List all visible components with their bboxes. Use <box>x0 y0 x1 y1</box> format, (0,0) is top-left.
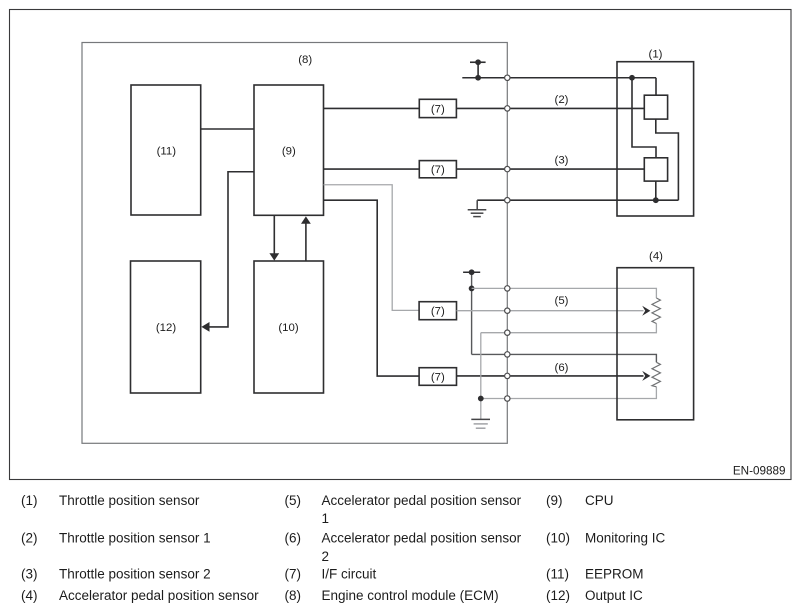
arrowhead into U10 <box>269 253 279 260</box>
wire TPS1 element to ground rail <box>656 119 679 200</box>
svg-text:(8): (8) <box>285 588 302 603</box>
wire U7a to TPS1 (signal 2) <box>456 107 644 109</box>
svg-text:CPU: CPU <box>585 493 614 508</box>
svg-text:2: 2 <box>322 549 330 564</box>
svg-text:Engine control module (ECM): Engine control module (ECM) <box>322 588 499 603</box>
ground symbol (top) <box>468 200 487 216</box>
wire U10 up to U9 with arrow <box>305 223 307 262</box>
svg-text:Throttle position sensor: Throttle position sensor <box>59 493 200 508</box>
wire U11 to U9 <box>202 128 255 130</box>
engine control module (ECM) box (8) <box>82 43 507 444</box>
arrowhead into U9 <box>301 216 311 223</box>
pin node signal 3 <box>505 166 510 171</box>
junction dot power branch <box>629 75 635 81</box>
power supply symbol (top) <box>470 62 486 78</box>
svg-text:(11): (11) <box>546 567 569 582</box>
wire TPS2 element to ground <box>655 181 657 200</box>
pin node signal 5 <box>505 308 510 313</box>
svg-text:Accelerator pedal position sen: Accelerator pedal position sensor <box>59 588 259 603</box>
pin node power top <box>505 75 510 80</box>
wire U7c to APS1 wiper (signal 5, gray) <box>457 310 644 312</box>
accelerator pedal position sensor box (4) <box>617 268 694 420</box>
svg-text:(2): (2) <box>21 531 38 546</box>
ECM pin circles on bus <box>505 75 510 401</box>
svg-text:(12): (12) <box>156 322 176 334</box>
junction dot power top bar <box>475 59 481 65</box>
junction dot power bottom bar <box>469 269 475 275</box>
pin node APS1 return <box>505 330 510 335</box>
wire accelerator power 2 (dark) <box>472 354 657 362</box>
wire sensor ground line (top) <box>477 199 678 201</box>
wire power into TPS1 element <box>655 78 657 95</box>
throttle sensor element 2 (square) <box>644 158 667 181</box>
svg-text:1: 1 <box>322 511 330 526</box>
junction dot ground in sensor 1 <box>653 197 659 203</box>
svg-text:(7): (7) <box>431 103 445 115</box>
pin node APS2 return <box>505 396 510 401</box>
junction dot power bottom wire <box>469 286 475 292</box>
ground rail (bottom, gray) <box>480 333 482 420</box>
svg-text:(9): (9) <box>282 145 296 157</box>
svg-text:(2): (2) <box>555 94 569 106</box>
svg-text:(4): (4) <box>21 588 38 603</box>
svg-text:Accelerator pedal position sen: Accelerator pedal position sensor <box>322 531 522 546</box>
power supply symbol (bottom) <box>463 271 480 273</box>
I/F circuit box U7c <box>419 302 456 320</box>
svg-text:(8): (8) <box>298 54 312 66</box>
svg-text:(7): (7) <box>431 306 445 318</box>
I/F circuit box U7b <box>419 161 456 178</box>
svg-text:(7): (7) <box>431 372 445 384</box>
svg-text:Accelerator pedal position sen: Accelerator pedal position sensor <box>322 493 522 508</box>
svg-text:(5): (5) <box>285 493 302 508</box>
wire power branch inside sensor 1 <box>632 78 656 158</box>
arrowhead into U12 <box>201 322 209 332</box>
wire U9 to U12 with arrow <box>209 172 254 327</box>
CPU box U9 <box>254 85 324 215</box>
throttle sensor element 1 (square) <box>644 95 667 119</box>
wire accelerator power 1 (gray) <box>472 288 657 298</box>
pin node power bottom 1 <box>505 286 510 291</box>
svg-text:EEPROM: EEPROM <box>585 567 644 582</box>
wire APS2 return (gray) <box>481 387 657 399</box>
svg-text:(7): (7) <box>285 567 302 582</box>
Output IC box U12 <box>131 261 201 393</box>
pin node signal 2 <box>505 106 510 111</box>
svg-text:(3): (3) <box>21 567 38 582</box>
pin node ground top <box>505 198 510 203</box>
wire U9 to I/F circuit U7d <box>324 200 420 376</box>
EEPROM box U11 <box>131 85 201 215</box>
svg-text:Output IC: Output IC <box>585 588 643 603</box>
vertical feed from power symbol (bottom) <box>471 272 473 354</box>
outer frame <box>10 10 792 480</box>
I/F circuit box U7a <box>419 99 456 117</box>
wiper arrowhead APS2 <box>642 371 650 381</box>
junction dot power on wire <box>475 75 481 81</box>
svg-text:(3): (3) <box>555 155 569 167</box>
wire APS1 return (gray) <box>481 324 657 333</box>
I/F circuit box U7d <box>419 368 456 386</box>
svg-text:(4): (4) <box>649 251 663 263</box>
svg-text:(6): (6) <box>555 362 569 374</box>
legend column 2 <box>285 493 522 603</box>
potentiometer APS2 zigzag <box>652 362 660 387</box>
wire sensor power line (top) <box>462 77 656 79</box>
ground symbol (bottom) <box>471 419 490 428</box>
svg-text:(10): (10) <box>278 322 298 334</box>
svg-text:(5): (5) <box>555 295 569 307</box>
potentiometer APS1 zigzag <box>652 298 660 324</box>
svg-text:(12): (12) <box>546 588 570 603</box>
svg-text:EN-09889: EN-09889 <box>733 464 786 477</box>
wire U9 to I/F circuit U7a <box>324 107 420 109</box>
svg-text:Throttle position sensor 2: Throttle position sensor 2 <box>59 567 211 582</box>
wiper arrowhead APS1 <box>642 306 650 316</box>
legend column 1 <box>21 493 259 603</box>
wire U9 down to U10 with arrow <box>273 215 275 254</box>
legend column 3 <box>546 493 666 603</box>
svg-text:(1): (1) <box>21 493 38 508</box>
wire U9 to I/F circuit U7b <box>324 168 420 170</box>
svg-text:Throttle position sensor 1: Throttle position sensor 1 <box>59 531 211 546</box>
pin node signal 6 <box>505 373 510 378</box>
svg-text:Monitoring IC: Monitoring IC <box>585 531 666 546</box>
svg-text:(9): (9) <box>546 493 563 508</box>
svg-text:(10): (10) <box>546 531 570 546</box>
svg-text:(6): (6) <box>285 531 302 546</box>
svg-text:I/F circuit: I/F circuit <box>322 567 377 582</box>
wire U7d to APS2 wiper (signal 6) <box>457 375 644 377</box>
svg-text:(7): (7) <box>431 164 445 176</box>
junction dot ground bottom <box>478 396 484 402</box>
svg-text:(11): (11) <box>157 145 177 157</box>
pin node power bottom 2 <box>505 352 510 357</box>
svg-text:(1): (1) <box>649 49 663 61</box>
wire U7b to TPS2 (signal 3) <box>456 168 644 170</box>
wire U9 to I/F circuit U7c (gray) <box>324 185 420 311</box>
Monitoring IC box U10 <box>254 261 324 393</box>
throttle position sensor box (1) <box>617 62 694 216</box>
